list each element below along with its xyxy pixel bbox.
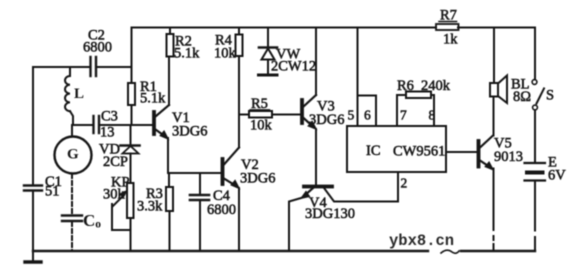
wire left outer vertical <box>32 67 34 185</box>
microphone G <box>55 125 92 174</box>
wire C4 to ground rail <box>199 200 201 251</box>
capacitor C4 <box>190 188 236 218</box>
svg-text:S: S <box>546 88 554 104</box>
pin 6 wire <box>358 96 377 127</box>
svg-text:6800: 6800 <box>83 40 112 56</box>
wire left vertical bias chain top <box>131 28 133 84</box>
capacitor C1 <box>24 174 62 200</box>
svg-text:2: 2 <box>401 176 408 191</box>
svg-text:9013: 9013 <box>494 149 523 165</box>
capacitor C2 <box>83 28 112 77</box>
wire R3 to ground rail <box>169 211 171 251</box>
svg-text:30k: 30k <box>103 187 126 203</box>
svg-text:2CP: 2CP <box>103 154 128 170</box>
svg-text:5.1k: 5.1k <box>174 46 200 62</box>
inductor L <box>65 67 84 125</box>
wire node to VD <box>130 125 132 144</box>
svg-text:5: 5 <box>348 108 355 123</box>
svg-text:240k: 240k <box>421 78 451 94</box>
wire V2 emitter to ground rail <box>238 188 240 251</box>
svg-text:R6: R6 <box>397 78 414 94</box>
wire V1 collector to R2 <box>168 57 170 106</box>
svg-text:5.1k: 5.1k <box>140 91 166 107</box>
svg-text:8: 8 <box>429 108 436 123</box>
wire R1 to base node <box>131 105 133 125</box>
capacitor Co <box>62 211 101 231</box>
transistor V3 <box>302 95 344 130</box>
wire dashed Co to ground rail <box>71 222 73 251</box>
wire base line to V1 <box>99 124 152 126</box>
potentiometer KP <box>103 175 134 231</box>
svg-text:3DG6: 3DG6 <box>172 124 207 140</box>
svg-text:10k: 10k <box>214 46 237 62</box>
transistor V2 <box>223 148 276 190</box>
wire V1 emitter down <box>167 138 169 173</box>
wire dashed to Co <box>71 174 73 215</box>
wire emitter bus <box>168 172 222 174</box>
pin 5 wire to rail <box>357 28 359 127</box>
svg-text:2CW12: 2CW12 <box>271 59 316 75</box>
wire R4 bottom to R5 node <box>238 56 240 115</box>
wire KP to ground rail <box>130 218 132 251</box>
svg-text:3DG6: 3DG6 <box>309 112 344 128</box>
resistor R2 <box>167 28 201 62</box>
svg-text:ybx8.cn: ybx8.cn <box>389 232 454 250</box>
wire V5 collector to speaker <box>493 97 495 136</box>
wire to R3 <box>168 173 170 187</box>
svg-text:3DG6: 3DG6 <box>240 171 275 187</box>
resistor R1 <box>128 79 166 107</box>
svg-text:G: G <box>67 147 79 163</box>
svg-text:L: L <box>74 86 84 102</box>
wire tilde gap mark <box>441 250 459 253</box>
svg-text:7: 7 <box>400 108 407 123</box>
battery E <box>525 155 567 251</box>
wire to C4 <box>199 173 201 194</box>
wire V5 emitter to ground rail <box>493 169 495 231</box>
svg-text:13: 13 <box>100 125 115 141</box>
diode VD <box>99 142 140 171</box>
capacitor C3 <box>94 109 118 141</box>
wire V3 collector to rail <box>315 28 317 96</box>
wire base line C3 <box>73 124 93 126</box>
resistor R5 <box>239 96 300 134</box>
resistor R6 <box>397 78 451 98</box>
resistor R4 <box>214 28 243 62</box>
wire V2 collector up to R5 node <box>238 115 240 148</box>
svg-text:3DG130: 3DG130 <box>305 206 355 222</box>
wire V3 emitter to V4 base <box>315 129 317 184</box>
svg-text:10k: 10k <box>250 118 273 134</box>
pin 8 wire <box>433 95 435 126</box>
svg-text:3.3k: 3.3k <box>137 199 163 215</box>
svg-text:6V: 6V <box>548 168 566 184</box>
wire C2 horizontal <box>33 66 90 68</box>
wire top rail right segment <box>458 27 535 29</box>
zener VW <box>259 28 317 76</box>
speaker BL <box>490 28 531 106</box>
resistor R7 <box>436 8 459 48</box>
svg-text:C3: C3 <box>101 109 118 125</box>
transistor V1 <box>154 105 207 140</box>
wire left outer vertical lower <box>32 191 34 252</box>
ground <box>25 251 41 262</box>
transistor V4 <box>289 172 398 251</box>
svg-text:6: 6 <box>364 108 371 123</box>
ground rail bottom <box>33 250 428 252</box>
wire VD to KP <box>130 154 132 184</box>
svg-text:1k: 1k <box>443 32 458 48</box>
svg-text:6800: 6800 <box>207 202 236 218</box>
switch S <box>532 28 554 163</box>
pin 7 wire <box>396 95 398 126</box>
IC CW9561 <box>347 126 446 172</box>
svg-text:51: 51 <box>45 184 60 200</box>
wire IC output to V5 <box>446 151 477 153</box>
svg-text:CW9561: CW9561 <box>393 144 445 160</box>
wire top rail left segment <box>132 27 437 29</box>
svg-text:IC: IC <box>366 143 381 159</box>
transistor V5 <box>479 136 524 172</box>
resistor R3 <box>137 186 173 215</box>
svg-text:8Ω: 8Ω <box>513 89 531 105</box>
